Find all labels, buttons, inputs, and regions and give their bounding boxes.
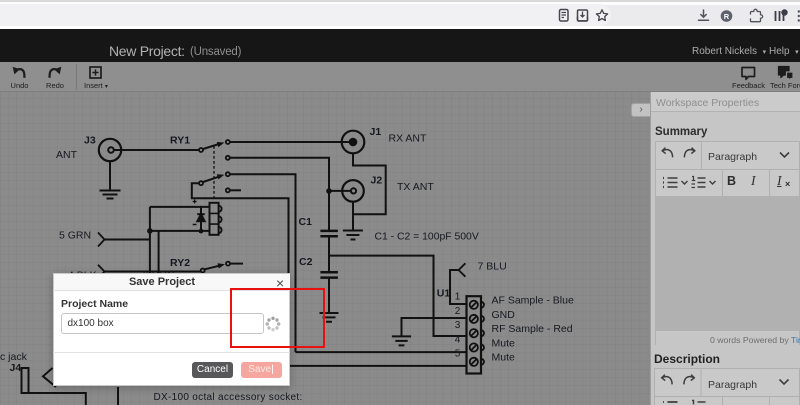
- svg-text:4: 4: [455, 334, 461, 345]
- svg-text:R: R: [724, 12, 730, 21]
- svg-text:RF Sample - Red: RF Sample - Red: [492, 323, 573, 335]
- svg-text:AF Sample - Blue: AF Sample - Blue: [492, 295, 574, 307]
- svg-text:5: 5: [455, 349, 461, 360]
- svg-text:RY2: RY2: [170, 257, 190, 269]
- svg-text:TX ANT: TX ANT: [397, 181, 434, 193]
- svg-text:GND: GND: [492, 309, 516, 321]
- svg-text:DX-100 octal accessory socket:: DX-100 octal accessory socket:: [154, 392, 303, 403]
- svg-text:C1 - C2 = 100pF 500V: C1 - C2 = 100pF 500V: [375, 232, 479, 243]
- svg-text:C2: C2: [299, 256, 313, 268]
- svg-text:J3: J3: [84, 135, 96, 147]
- svg-text:2: 2: [455, 306, 461, 317]
- svg-text:RX ANT: RX ANT: [389, 133, 428, 145]
- svg-text:RY1: RY1: [170, 135, 190, 147]
- svg-text:J2: J2: [371, 175, 383, 187]
- svg-text:Mute: Mute: [492, 352, 516, 364]
- svg-text:3: 3: [455, 320, 461, 331]
- svg-text:C1: C1: [299, 216, 313, 228]
- svg-text:1: 1: [455, 292, 461, 303]
- svg-text:7 BLU: 7 BLU: [478, 261, 507, 273]
- svg-text:U1: U1: [437, 288, 451, 300]
- svg-text:ANT: ANT: [56, 149, 78, 161]
- svg-text:J1: J1: [370, 126, 382, 138]
- svg-text:5 GRN: 5 GRN: [59, 230, 91, 242]
- svg-text:J4: J4: [10, 362, 22, 374]
- svg-text:Mute: Mute: [492, 337, 516, 349]
